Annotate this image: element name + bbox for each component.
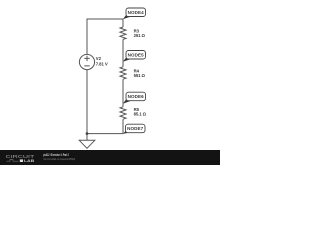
wire top horizontal from V2 branch to resistor chain xyxy=(87,18,123,20)
svg-text:http://circuitlab.com/cqae2ub4: http://circuitlab.com/cqae2ub4f59kj9 xyxy=(43,157,75,161)
label R5 85.1 &#937; xyxy=(134,107,147,116)
wire chain segment R5 to bottom corner xyxy=(122,119,124,133)
resistor R3 xyxy=(120,27,126,39)
voltage source V2 xyxy=(79,54,94,69)
svg-text:LAB: LAB xyxy=(24,158,34,163)
svg-text:85.1 Ω: 85.1 Ω xyxy=(134,111,147,116)
label V2 7.81 V xyxy=(96,56,108,66)
svg-text:7.81 V: 7.81 V xyxy=(96,62,108,67)
wire chain segment R3 to NODE5 junction xyxy=(122,39,124,61)
wire left vertical lower segment (V2 minus terminal to bottom corner) xyxy=(86,70,88,134)
wire bottom horizontal from ground junction to resistor chain xyxy=(87,133,123,135)
resistor R4 xyxy=(120,67,126,79)
label R3 251 &#937; xyxy=(134,29,146,39)
node NODE7 flag xyxy=(123,124,145,134)
junction dot at ground node xyxy=(86,132,89,135)
svg-text:V2: V2 xyxy=(96,56,102,61)
CircuitLab logo waveform xyxy=(7,160,19,162)
footer bar xyxy=(0,150,220,165)
node NODE4 flag xyxy=(123,8,146,19)
node NODE5 flag xyxy=(123,51,146,62)
node NODE6 flag xyxy=(123,92,146,104)
wire left vertical upper segment (top corner to V2 plus terminal) xyxy=(86,19,88,55)
label R4 551 &#937; xyxy=(134,68,146,77)
wire chain segment NODE6 to R5 xyxy=(122,104,124,107)
svg-text:NODE4: NODE4 xyxy=(128,10,145,15)
ground xyxy=(79,134,95,149)
svg-text:551 Ω: 551 Ω xyxy=(134,73,146,78)
wire chain segment NODE4 to R3 xyxy=(122,19,124,27)
svg-text:NODE5: NODE5 xyxy=(128,52,145,57)
svg-text:NODE7: NODE7 xyxy=(127,126,144,131)
svg-text:251 Ω: 251 Ω xyxy=(134,33,146,38)
resistor R5 xyxy=(120,107,126,119)
wire chain segment NODE5 to R4 xyxy=(122,62,124,67)
svg-text:NODE6: NODE6 xyxy=(128,94,145,99)
wire chain segment R4 to NODE6 junction xyxy=(122,79,124,103)
